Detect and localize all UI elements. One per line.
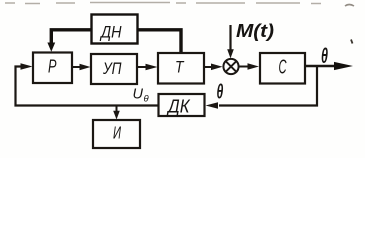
wire M(t) input into summing junction — [229, 25, 231, 50]
svg-text:U: U — [133, 87, 144, 103]
wire: DN right thick line down into T top — [138, 30, 181, 53]
svg-text:θ: θ — [217, 82, 224, 104]
block C — [260, 53, 305, 84]
scan artifact tick right edge — [351, 40, 353, 44]
wire R to UP — [72, 66, 82, 68]
wire: feedback bottom line from DK left to far left then up to R input — [16, 67, 159, 106]
svg-text:θ: θ — [321, 44, 328, 68]
svg-text:ДК: ДК — [166, 97, 191, 117]
svg-text:И: И — [113, 123, 121, 143]
svg-text:θ: θ — [144, 94, 150, 105]
block T — [158, 53, 204, 84]
svg-text:ДН: ДН — [99, 24, 121, 42]
block DN — [92, 15, 138, 44]
wire summing junction to C — [239, 66, 248, 68]
scan artifact dashes top edge — [5, 3, 354, 7]
wire feedback takeoff down and left to DK — [219, 66, 317, 106]
block UP — [91, 54, 137, 84]
svg-text:Р: Р — [48, 57, 57, 77]
wire branch down to I block — [116, 106, 118, 113]
block I — [93, 120, 140, 148]
wire T to summing junction — [204, 66, 213, 68]
wire C output with big arrow — [305, 65, 336, 67]
block DK — [159, 94, 205, 116]
wire UP to T — [137, 66, 148, 68]
block R — [33, 53, 72, 84]
svg-text:M(t): M(t) — [236, 21, 274, 41]
svg-text:УП: УП — [102, 60, 121, 78]
svg-text:С: С — [279, 57, 287, 79]
wire: DN left thick line down into R top — [51, 30, 91, 44]
summing junction circle with X — [223, 59, 238, 74]
arrow into R left — [21, 63, 33, 70]
